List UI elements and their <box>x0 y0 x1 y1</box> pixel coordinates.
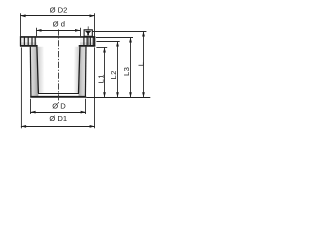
oil cup funnel <box>85 31 92 36</box>
main centerline <box>58 29 60 103</box>
dim D2 arrow right <box>90 14 95 17</box>
body left wall fill <box>30 47 38 97</box>
body outline <box>30 47 86 97</box>
ext line flange mid to L2 <box>96 41 119 43</box>
flange bottom right segment <box>79 45 96 47</box>
dim d extension right <box>80 28 82 36</box>
dim D2 line <box>20 15 94 17</box>
flange left edge <box>20 36 22 46</box>
dim D extension right <box>85 99 87 114</box>
flange left knurl hatch <box>24 37 35 45</box>
dim d arrow right <box>75 29 80 32</box>
dim D1 arrow left <box>21 125 26 128</box>
dim L1 arrow bottom <box>103 92 106 97</box>
ext line flange top to L3 <box>96 37 133 39</box>
svg-text:L: L <box>136 61 145 66</box>
flange right knurl hatch <box>84 37 93 45</box>
dim D extension left <box>30 99 32 114</box>
dim L arrow bottom <box>142 92 145 97</box>
bore bottom rim line <box>38 93 79 95</box>
flange outline <box>20 36 95 46</box>
oil cup centerline lower <box>87 37 89 46</box>
bore inner shadow right <box>74 47 80 93</box>
svg-text:Ø d: Ø d <box>53 20 65 29</box>
oil cup body <box>84 30 92 37</box>
bore inner right <box>79 47 80 94</box>
dim D arrow left <box>30 111 35 114</box>
svg-text:Ø D: Ø D <box>52 102 66 111</box>
flange right lower gray band <box>80 42 95 45</box>
dim D1 extension right <box>94 47 96 128</box>
bore inner shadow left <box>38 47 45 93</box>
part bottom edge <box>30 96 86 98</box>
dim d line <box>36 30 80 32</box>
svg-text:L1: L1 <box>96 74 105 83</box>
dim D1 extension left <box>20 47 22 128</box>
dim L3 arrow bottom <box>129 92 132 97</box>
flange left section fill <box>21 37 37 46</box>
flange top edge <box>20 36 95 38</box>
ext line flange bottom to L1 <box>96 47 107 49</box>
dim L1 line <box>104 48 106 98</box>
flange bottom left segment <box>20 45 38 47</box>
dim L3 arrow top <box>129 37 132 42</box>
bore inner left <box>37 47 39 94</box>
bottom extension line to L dims <box>86 97 150 99</box>
dim D1 arrow right <box>90 125 95 128</box>
svg-text:Ø D2: Ø D2 <box>50 6 68 15</box>
flange left lower gray band <box>21 42 37 45</box>
dim D1 line <box>21 126 95 128</box>
flange right edge <box>94 36 96 46</box>
dim L line <box>143 32 145 98</box>
svg-text:L2: L2 <box>109 70 118 79</box>
dim d extension left <box>36 28 38 36</box>
dim D line <box>30 112 85 114</box>
dim D2 extension left <box>20 13 22 36</box>
body right wall fill <box>79 47 87 97</box>
dim D2 extension right <box>94 13 96 36</box>
dim L3 line <box>130 38 132 98</box>
ext line cup top to L <box>92 31 146 33</box>
svg-text:Ø D1: Ø D1 <box>49 114 67 123</box>
oil cup centerline <box>87 26 89 29</box>
body outer left <box>29 47 32 97</box>
flange right section fill <box>80 37 95 46</box>
dim L arrow top <box>142 31 145 36</box>
dim L2 arrow bottom <box>116 92 119 97</box>
dim D2 arrow left <box>20 14 25 17</box>
dim D arrow right <box>81 111 86 114</box>
dim L2 arrow top <box>116 41 119 46</box>
svg-text:L3: L3 <box>122 67 131 76</box>
body outer right <box>84 47 87 97</box>
dim L1 arrow top <box>103 47 106 52</box>
dim L2 line <box>117 42 119 98</box>
dim d arrow left <box>36 29 41 32</box>
